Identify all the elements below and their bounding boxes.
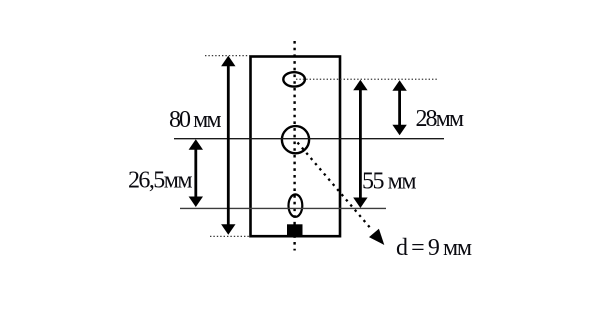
dimension arrow 55 mm — [353, 80, 367, 208]
hole middle (circle d=9) — [282, 126, 309, 153]
extension line top-left (dotted) — [205, 55, 250, 57]
leader arrow to hole diameter (dotted diagonal) — [298, 143, 385, 246]
plate centerline (vertical dotted) — [293, 41, 295, 251]
reference line through bottom hole (solid) — [180, 207, 386, 209]
svg-text:28мм: 28мм — [416, 106, 465, 132]
svg-text:80 мм: 80 мм — [169, 107, 222, 133]
dimension arrow 80 mm (left, double-headed vertical) — [221, 56, 235, 235]
reference line through top hole (dotted, to the right) — [296, 78, 438, 80]
extension line bottom-left (dotted) — [210, 235, 250, 237]
svg-text:55 мм: 55 мм — [362, 169, 417, 195]
key / tab (filled square at plate bottom) — [287, 224, 303, 236]
dimension arrow 28 mm — [392, 80, 406, 135]
svg-text:26,5мм: 26,5мм — [128, 168, 193, 194]
plate outline — [251, 57, 341, 237]
hole bottom (ellipse) — [289, 194, 303, 216]
hole top (ellipse) — [283, 72, 305, 86]
svg-text:d = 9 мм: d = 9 мм — [396, 235, 472, 261]
dimension arrow 26,5 mm — [189, 139, 203, 207]
reference line through middle hole (solid) — [174, 138, 444, 140]
